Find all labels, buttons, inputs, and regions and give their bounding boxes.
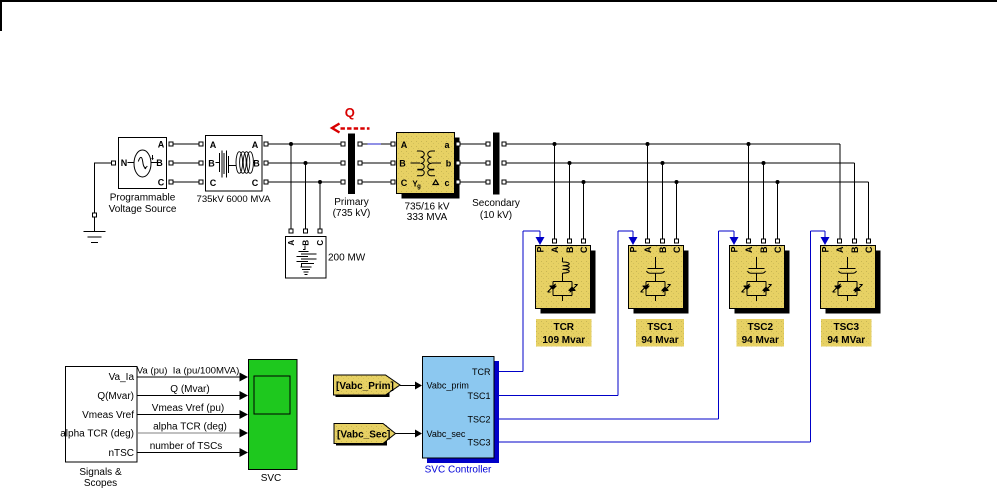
port squares TSC1 A B C xyxy=(646,239,679,243)
svg-text:B: B xyxy=(253,159,260,169)
svg-text:B: B xyxy=(302,240,311,246)
control wire TSC1 xyxy=(496,231,638,396)
svg-text:C: C xyxy=(316,240,325,246)
svg-text:P: P xyxy=(629,247,639,253)
svg-text:Secondary: Secondary xyxy=(472,198,520,209)
port squares transformer left xyxy=(391,142,395,184)
svg-text:c: c xyxy=(444,178,449,188)
scope block SVC xyxy=(249,360,298,485)
scopes block Signals and Scopes xyxy=(60,367,137,489)
port squares secondary bar left xyxy=(486,142,490,184)
svg-text:[Vabc_Prim]: [Vabc_Prim] xyxy=(336,381,394,392)
wire TSC3 drop A xyxy=(839,144,841,239)
window frame top edge xyxy=(0,0,997,31)
wire number of TSCs to scope xyxy=(137,441,248,457)
svg-text:Va (pu) Ia (pu/100MVA): Va (pu) Ia (pu/100MVA) xyxy=(137,366,240,377)
control wire TSC3 xyxy=(496,231,830,442)
wire tag to Vabc_prim input xyxy=(400,382,422,390)
wire tag to Vabc_sec input xyxy=(396,430,423,438)
svg-text:Vabc_prim: Vabc_prim xyxy=(427,381,469,391)
from tag Vabc_Prim xyxy=(334,375,401,397)
from tag Vabc_Sec xyxy=(334,424,396,446)
port squares TCR A B C xyxy=(553,239,586,243)
measurement bar Primary (735 kV) xyxy=(333,134,371,219)
svg-text:TSC3: TSC3 xyxy=(467,438,490,448)
wire PVS C to source impedance C xyxy=(174,181,199,183)
port squares TSC2 A B C xyxy=(747,239,780,243)
svg-text:94 MVar: 94 MVar xyxy=(827,335,865,346)
svg-text:Va_Ia: Va_Ia xyxy=(109,372,135,383)
port square PVS B xyxy=(169,161,173,165)
load block 200 MW xyxy=(286,237,366,279)
svg-text:735/16 kV: 735/16 kV xyxy=(404,202,449,213)
port squares source impedance right xyxy=(264,142,268,184)
port squares source impedance left xyxy=(199,142,203,184)
svg-text:A: A xyxy=(550,246,560,253)
svg-text:Vabc_sec: Vabc_sec xyxy=(427,429,466,439)
svg-text:333 MVA: 333 MVA xyxy=(407,212,448,223)
voltage source block U1 Programmable Voltage Source xyxy=(109,138,177,216)
node TSC1 tap C xyxy=(675,180,679,239)
node load tap C xyxy=(318,180,322,229)
svg-text:A: A xyxy=(252,140,259,150)
svg-text:94 Mvar: 94 Mvar xyxy=(742,335,779,346)
svg-text:TSC1: TSC1 xyxy=(647,322,673,333)
svg-text:B: B xyxy=(658,246,668,253)
label box TSC2 xyxy=(737,319,785,347)
svg-text:g: g xyxy=(417,184,421,190)
port squares primary bar left xyxy=(341,142,345,184)
svg-text:A: A xyxy=(643,246,653,253)
svg-text:B: B xyxy=(156,158,163,168)
wire TSC3 drop B xyxy=(854,163,856,239)
port square PVS C xyxy=(169,180,173,184)
port square PVS N xyxy=(112,161,116,165)
svg-text:number of TSCs: number of TSCs xyxy=(150,441,223,452)
svg-text:Q (Mvar): Q (Mvar) xyxy=(170,384,209,395)
svg-text:C: C xyxy=(158,178,165,188)
svg-text:Scopes: Scopes xyxy=(84,478,117,489)
svg-text:A: A xyxy=(401,140,408,150)
label box TSC3 xyxy=(821,319,872,347)
svg-text:Programmable: Programmable xyxy=(110,193,176,204)
svg-text:alpha TCR (deg): alpha TCR (deg) xyxy=(60,429,134,440)
svg-text:Signals &: Signals & xyxy=(79,467,122,478)
wire phase A to primary bar xyxy=(269,143,341,145)
svg-text:b: b xyxy=(446,159,452,169)
svg-text:C: C xyxy=(672,246,682,253)
wire PVS A to source impedance A xyxy=(174,143,199,145)
svg-text:P: P xyxy=(730,247,740,253)
ground symbol xyxy=(84,218,106,243)
compensator block TSC3 xyxy=(821,246,881,314)
svg-text:A: A xyxy=(210,140,217,150)
wire transformer c to secondary bar xyxy=(461,181,486,183)
node TCR tap A xyxy=(553,142,557,239)
svg-text:TCR: TCR xyxy=(553,322,574,333)
svg-text:TSC1: TSC1 xyxy=(467,391,490,401)
wire primary bar to transformer C xyxy=(363,181,391,183)
svg-text:Q: Q xyxy=(345,105,355,120)
svg-text:Voltage Source: Voltage Source xyxy=(109,204,177,215)
svg-text:[Vabc_Sec]: [Vabc_Sec] xyxy=(337,430,390,441)
transformer T1 735/16 kV 333 MVA xyxy=(397,133,460,224)
port squares transformer right xyxy=(456,142,460,184)
svg-text:Vmeas Vref (pu): Vmeas Vref (pu) xyxy=(152,403,224,414)
wire PVS B to source impedance B xyxy=(174,162,199,164)
node load tap B xyxy=(304,161,308,229)
svg-text:SVC Controller: SVC Controller xyxy=(425,465,492,476)
svg-text:B: B xyxy=(759,246,769,253)
svg-text:SVC: SVC xyxy=(261,473,282,484)
svg-text:P: P xyxy=(536,247,546,253)
svg-text:Q(Mvar): Q(Mvar) xyxy=(97,391,134,402)
svg-text:C: C xyxy=(773,246,783,253)
svg-text:N: N xyxy=(121,158,128,168)
svg-text:A: A xyxy=(287,240,296,246)
svg-text:TCR: TCR xyxy=(472,367,491,377)
label box TSC1 xyxy=(636,319,684,347)
svg-text:C: C xyxy=(579,246,589,253)
svg-text:A: A xyxy=(744,246,754,253)
svg-text:TSC3: TSC3 xyxy=(833,322,859,333)
controller block U2 SVC Controller xyxy=(423,357,500,476)
port squares primary bar right xyxy=(358,142,362,184)
svg-text:TSC2: TSC2 xyxy=(747,322,773,333)
wire primary bar to transformer A with blue highlighted segment xyxy=(363,143,391,145)
compensator block TSC2 xyxy=(730,246,790,314)
wire Va_Ia to scope xyxy=(137,366,248,382)
node TSC1 tap A xyxy=(646,142,650,239)
wire primary bar to transformer B xyxy=(363,162,391,164)
svg-text:A: A xyxy=(835,246,845,253)
node load tap A xyxy=(289,142,293,229)
port squares TSC3 A B C xyxy=(838,239,871,243)
wire Q to scope xyxy=(137,384,248,400)
svg-text:TSC2: TSC2 xyxy=(467,415,490,425)
svg-text:P: P xyxy=(821,247,831,253)
svg-text:94 Mvar: 94 Mvar xyxy=(641,335,678,346)
svg-text:B: B xyxy=(565,246,575,253)
svg-text:A: A xyxy=(158,140,165,150)
node TSC2 tap A xyxy=(747,142,751,239)
svg-text:C: C xyxy=(401,178,408,188)
svg-text:C: C xyxy=(210,178,217,188)
label box TCR xyxy=(536,319,592,347)
bus wire phase A secondary xyxy=(507,143,841,145)
bus wire phase B secondary xyxy=(507,162,855,164)
control wire TSC2 xyxy=(496,231,739,419)
wire N to ground xyxy=(94,163,111,213)
wire Vmeas Vref to scope xyxy=(137,403,248,419)
port squares load A B C xyxy=(289,229,322,233)
svg-text:nTSC: nTSC xyxy=(108,448,134,459)
wire transformer a to secondary bar xyxy=(461,143,486,145)
compensator block TSC1 xyxy=(629,246,689,314)
svg-text:200 MW: 200 MW xyxy=(328,253,366,264)
svg-text:735kV 6000 MVA: 735kV 6000 MVA xyxy=(197,194,272,205)
wire phase C to primary bar xyxy=(269,181,341,183)
port squares secondary bar right xyxy=(502,142,506,184)
svg-text:(735 kV): (735 kV) xyxy=(333,208,371,219)
annotation Q reactive power arrow xyxy=(332,105,370,133)
node TCR tap C xyxy=(582,180,586,239)
svg-text:Primary: Primary xyxy=(334,197,368,208)
wire transformer b to secondary bar xyxy=(461,162,486,164)
svg-text:B: B xyxy=(850,246,860,253)
svg-text:B: B xyxy=(208,159,215,169)
svg-text:(10 kV): (10 kV) xyxy=(480,210,512,221)
svg-text:109 Mvar: 109 Mvar xyxy=(542,335,585,346)
compensator block TCR xyxy=(536,246,596,314)
svg-text:alpha TCR (deg): alpha TCR (deg) xyxy=(153,422,227,433)
source impedance block 735kV 6000 MVA xyxy=(197,136,272,206)
svg-text:C: C xyxy=(252,178,259,188)
port square PVS A xyxy=(169,142,173,146)
node TSC2 tap C xyxy=(776,180,780,239)
port square ground xyxy=(93,213,97,217)
svg-text:C: C xyxy=(864,246,874,253)
svg-text:B: B xyxy=(399,159,406,169)
node TSC2 tap B xyxy=(762,161,766,239)
wire phase B to primary bar xyxy=(269,162,341,164)
control wire TCR xyxy=(496,231,545,372)
svg-text:Vmeas Vref: Vmeas Vref xyxy=(82,410,134,421)
measurement bar Secondary (10 kV) xyxy=(472,133,520,222)
wire alpha TCR to scope xyxy=(137,422,248,438)
wire TSC3 drop C xyxy=(868,182,870,239)
node TCR tap B xyxy=(568,161,572,239)
bus wire phase C secondary xyxy=(507,181,869,183)
node TSC1 tap B xyxy=(661,161,665,239)
